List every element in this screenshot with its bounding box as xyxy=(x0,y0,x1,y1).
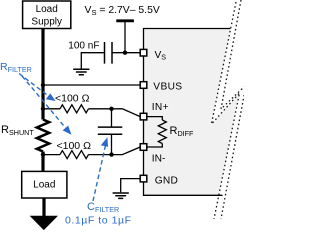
svg-text:0.1µF to 1µF: 0.1µF to 1µF xyxy=(65,215,132,227)
svg-text:IN+: IN+ xyxy=(152,102,169,113)
svg-text:RFILTER: RFILTER xyxy=(0,61,32,74)
svg-text:Load: Load xyxy=(33,180,55,191)
svg-text:<100 Ω: <100 Ω xyxy=(57,140,92,152)
svg-text:Supply: Supply xyxy=(31,16,62,27)
svg-text:Load: Load xyxy=(36,4,58,15)
svg-text:CFILTER: CFILTER xyxy=(87,201,119,214)
svg-text:<100 Ω: <100 Ω xyxy=(55,93,90,105)
svg-text:GND: GND xyxy=(155,175,178,186)
svg-text:RSHUNT: RSHUNT xyxy=(1,124,34,137)
svg-text:VBUS: VBUS xyxy=(153,81,182,92)
svg-text:IN-: IN- xyxy=(152,153,166,164)
svg-text:100 nF: 100 nF xyxy=(68,40,99,51)
svg-text:VS = 2.7V– 5.5V: VS = 2.7V– 5.5V xyxy=(85,5,160,17)
